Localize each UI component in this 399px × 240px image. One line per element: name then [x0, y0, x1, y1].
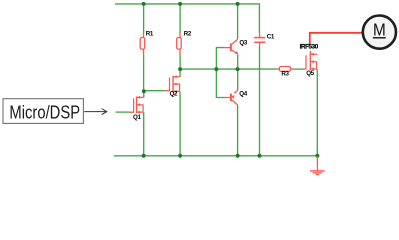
- svg-text:Q3: Q3: [239, 39, 247, 46]
- svg-text:R1: R1: [146, 31, 154, 38]
- svg-text:Q1: Q1: [133, 114, 141, 121]
- svg-text:IRF530: IRF530: [300, 44, 319, 51]
- svg-text:Q2: Q2: [170, 91, 178, 98]
- svg-text:Micro/DSP: Micro/DSP: [9, 102, 80, 123]
- svg-text:Q5: Q5: [306, 70, 314, 77]
- svg-text:M: M: [373, 21, 386, 40]
- svg-text:C1: C1: [267, 33, 275, 40]
- svg-text:R3: R3: [281, 70, 289, 77]
- svg-text:Q4: Q4: [239, 90, 247, 97]
- svg-text:R2: R2: [184, 31, 192, 38]
